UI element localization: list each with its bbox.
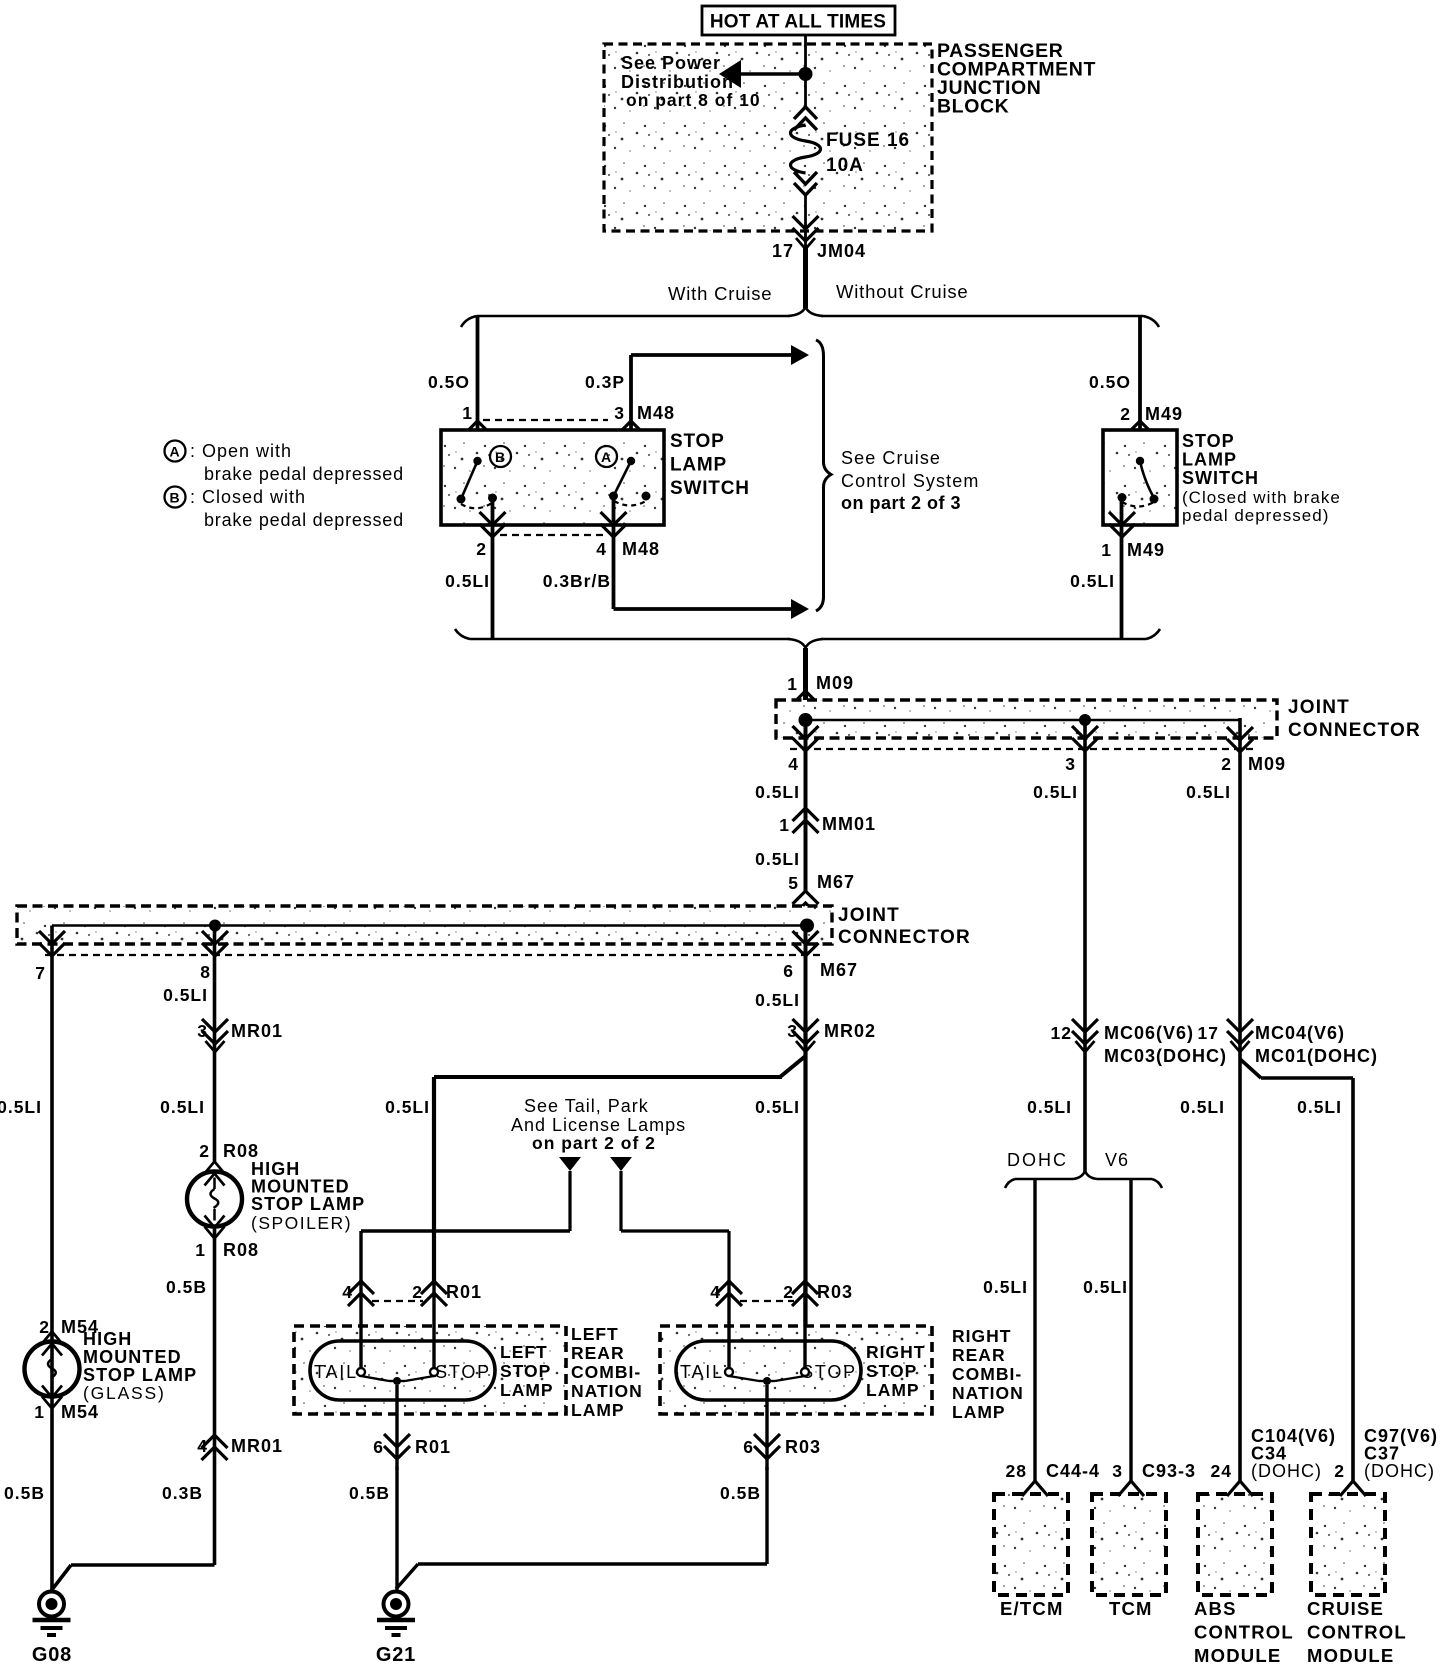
svg-text:NATION: NATION <box>952 1383 1024 1403</box>
svg-text:STOP LAMP: STOP LAMP <box>83 1365 197 1385</box>
svg-text:12: 12 <box>1051 1023 1072 1043</box>
svg-text:LAMP: LAMP <box>952 1402 1006 1422</box>
svg-text:0.5B: 0.5B <box>166 1277 207 1297</box>
svg-text:G08: G08 <box>32 1644 72 1666</box>
svg-text:6: 6 <box>783 961 794 981</box>
svg-text:MR02: MR02 <box>824 1021 876 1041</box>
svg-text:2: 2 <box>476 539 487 559</box>
svg-text:C93-3: C93-3 <box>1142 1461 1196 1481</box>
svg-text:CONTROL: CONTROL <box>1307 1622 1407 1643</box>
svg-text:6: 6 <box>373 1437 384 1457</box>
svg-text:(GLASS): (GLASS) <box>83 1383 166 1403</box>
svg-text:0.5LI: 0.5LI <box>0 1097 42 1117</box>
svg-text:0.5LI: 0.5LI <box>445 571 490 591</box>
svg-text:0.5O: 0.5O <box>1089 372 1131 392</box>
svg-text:0.5B: 0.5B <box>4 1483 45 1503</box>
svg-text:on part 2 of 2: on part 2 of 2 <box>532 1133 656 1153</box>
svg-text:0.5LI: 0.5LI <box>1180 1097 1225 1117</box>
svg-text:0.5LI: 0.5LI <box>1186 782 1231 802</box>
svg-text:2: 2 <box>1221 754 1232 774</box>
svg-text:0.5LI: 0.5LI <box>385 1097 430 1117</box>
svg-text:1: 1 <box>787 674 798 694</box>
svg-text:2: 2 <box>783 1282 794 1302</box>
svg-text:MC04(V6): MC04(V6) <box>1255 1023 1345 1043</box>
svg-text:B: B <box>169 490 180 506</box>
svg-text:LAMP: LAMP <box>500 1380 554 1400</box>
svg-text:MC06(V6): MC06(V6) <box>1104 1023 1194 1043</box>
svg-text:0.5LI: 0.5LI <box>1297 1097 1342 1117</box>
svg-text:MC01(DOHC): MC01(DOHC) <box>1255 1046 1378 1066</box>
svg-text:C44-4: C44-4 <box>1046 1461 1100 1481</box>
svg-text:FUSE 16: FUSE 16 <box>826 130 910 151</box>
svg-text:STOP: STOP <box>1182 431 1235 451</box>
svg-text:0.5LI: 0.5LI <box>755 782 800 802</box>
svg-text:17: 17 <box>1198 1023 1219 1043</box>
svg-text:0.5LI: 0.5LI <box>755 1097 800 1117</box>
svg-text:24: 24 <box>1211 1461 1232 1481</box>
svg-text:BLOCK: BLOCK <box>937 96 1009 118</box>
svg-text:R01: R01 <box>415 1437 451 1457</box>
svg-text:R03: R03 <box>785 1437 821 1457</box>
svg-text:COMBI-: COMBI- <box>571 1362 641 1382</box>
svg-text:CONNECTOR: CONNECTOR <box>838 927 971 948</box>
svg-text:0.5LI: 0.5LI <box>1027 1097 1072 1117</box>
svg-text:1: 1 <box>779 815 790 835</box>
svg-text:M67: M67 <box>817 872 855 892</box>
svg-text:With Cruise: With Cruise <box>668 283 772 304</box>
svg-text:M48: M48 <box>637 403 675 423</box>
svg-text:See Cruise: See Cruise <box>841 448 941 468</box>
svg-text:0.5LI: 0.5LI <box>1070 571 1115 591</box>
svg-text:R01: R01 <box>446 1282 482 1302</box>
svg-text:M54: M54 <box>61 1402 99 1422</box>
svg-text:REAR: REAR <box>571 1343 625 1363</box>
svg-text:4: 4 <box>710 1282 721 1302</box>
svg-text:LAMP: LAMP <box>670 455 727 476</box>
svg-text:TAIL: TAIL <box>680 1362 724 1382</box>
svg-text:LEFT: LEFT <box>571 1324 619 1344</box>
svg-text:R03: R03 <box>817 1282 853 1302</box>
svg-text:28: 28 <box>1006 1461 1027 1481</box>
svg-text:0.5LI: 0.5LI <box>163 985 208 1005</box>
svg-text:0.3Br/B: 0.3Br/B <box>543 571 611 591</box>
svg-text:M49: M49 <box>1127 540 1165 560</box>
svg-text:2: 2 <box>1120 404 1131 424</box>
svg-text:0.5LI: 0.5LI <box>1033 782 1078 802</box>
svg-text:Without Cruise: Without Cruise <box>836 281 969 302</box>
svg-text:G21: G21 <box>376 1644 416 1666</box>
svg-text:B: B <box>495 449 506 465</box>
svg-text:3: 3 <box>1065 754 1076 774</box>
svg-text:M67: M67 <box>820 960 858 980</box>
svg-text:brake pedal depressed: brake pedal depressed <box>204 464 404 484</box>
svg-text:LAMP: LAMP <box>571 1400 625 1420</box>
svg-text:Control System: Control System <box>841 471 979 491</box>
svg-text:on part 8 of 10: on part 8 of 10 <box>626 90 761 110</box>
svg-text:7: 7 <box>35 963 46 983</box>
svg-text:MC03(DOHC): MC03(DOHC) <box>1104 1046 1227 1066</box>
svg-text:M09: M09 <box>816 673 854 693</box>
svg-text:R08: R08 <box>223 1240 259 1260</box>
svg-text:8: 8 <box>200 962 211 982</box>
svg-text:JM04: JM04 <box>817 241 866 261</box>
svg-text:4: 4 <box>596 539 607 559</box>
svg-text:: Open with: : Open with <box>190 441 292 461</box>
svg-text:brake pedal depressed: brake pedal depressed <box>204 510 404 530</box>
svg-text:See Power: See Power <box>621 53 721 73</box>
svg-text:0.5B: 0.5B <box>720 1483 761 1503</box>
svg-text:STOP LAMP: STOP LAMP <box>251 1194 365 1214</box>
svg-text:pedal depressed): pedal depressed) <box>1182 506 1329 525</box>
svg-text:(SPOILER): (SPOILER) <box>251 1213 352 1233</box>
svg-text:4: 4 <box>788 754 799 774</box>
svg-text:1: 1 <box>195 1240 206 1260</box>
svg-text:17: 17 <box>772 241 794 261</box>
svg-text:R08: R08 <box>223 1141 259 1161</box>
svg-text:3: 3 <box>197 1021 208 1041</box>
svg-text:LAMP: LAMP <box>866 1380 920 1400</box>
svg-text:LAMP: LAMP <box>1182 450 1237 470</box>
svg-text:HOT AT ALL TIMES: HOT AT ALL TIMES <box>710 12 886 33</box>
svg-text:CRUISE: CRUISE <box>1307 1598 1384 1619</box>
svg-text:0.5B: 0.5B <box>349 1483 390 1503</box>
svg-text:0.5O: 0.5O <box>428 372 470 392</box>
svg-text:STOP: STOP <box>500 1361 551 1381</box>
svg-text:RIGHT: RIGHT <box>952 1326 1011 1346</box>
svg-text:ABS: ABS <box>1194 1598 1237 1619</box>
svg-text:2: 2 <box>199 1141 210 1161</box>
svg-text:JOINT: JOINT <box>838 905 900 926</box>
svg-text:STOP: STOP <box>435 1362 491 1382</box>
svg-text:(DOHC): (DOHC) <box>1251 1461 1322 1481</box>
svg-text:MR01: MR01 <box>231 1436 283 1456</box>
svg-text:4: 4 <box>342 1282 353 1302</box>
svg-text:MM01: MM01 <box>822 814 876 834</box>
svg-text:MOUNTED: MOUNTED <box>83 1347 182 1367</box>
svg-text:HIGH: HIGH <box>83 1329 132 1349</box>
svg-text:10A: 10A <box>826 155 864 176</box>
svg-text:Distribution: Distribution <box>621 72 734 92</box>
svg-text:1: 1 <box>1101 540 1112 560</box>
svg-text:6: 6 <box>743 1437 754 1457</box>
svg-text:See Tail, Park: See Tail, Park <box>524 1096 649 1116</box>
svg-text:0.5LI: 0.5LI <box>755 990 800 1010</box>
svg-text:REAR: REAR <box>952 1345 1006 1365</box>
svg-text:0.3B: 0.3B <box>162 1483 203 1503</box>
svg-text:0.3P: 0.3P <box>585 372 625 392</box>
svg-text:TAIL: TAIL <box>314 1362 358 1382</box>
svg-text:RIGHT: RIGHT <box>866 1342 925 1362</box>
svg-text:CONTROL: CONTROL <box>1194 1622 1294 1643</box>
svg-text:: Closed with: : Closed with <box>190 487 306 507</box>
svg-text:3: 3 <box>614 403 625 423</box>
svg-text:on part 2 of 3: on part 2 of 3 <box>841 493 961 513</box>
svg-text:STOP: STOP <box>866 1361 917 1381</box>
svg-text:1: 1 <box>34 1402 45 1422</box>
svg-text:MR01: MR01 <box>231 1021 283 1041</box>
svg-text:0.5LI: 0.5LI <box>1083 1277 1128 1297</box>
svg-text:M48: M48 <box>622 539 660 559</box>
svg-text:STOP: STOP <box>670 431 725 452</box>
svg-text:JOINT: JOINT <box>1288 697 1350 718</box>
svg-text:5: 5 <box>788 873 799 893</box>
svg-text:NATION: NATION <box>571 1381 643 1401</box>
svg-text:1: 1 <box>462 403 473 423</box>
svg-text:M49: M49 <box>1145 404 1183 424</box>
svg-text:4: 4 <box>197 1436 208 1456</box>
svg-text:COMBI-: COMBI- <box>952 1364 1022 1384</box>
svg-text:DOHC: DOHC <box>1007 1150 1068 1170</box>
svg-text:2: 2 <box>412 1282 423 1302</box>
svg-text:2: 2 <box>1334 1461 1345 1481</box>
svg-text:CONNECTOR: CONNECTOR <box>1288 720 1421 741</box>
svg-text:A: A <box>169 444 180 460</box>
svg-text:And License Lamps: And License Lamps <box>511 1115 686 1135</box>
svg-text:MODULE: MODULE <box>1194 1645 1281 1666</box>
svg-text:(DOHC): (DOHC) <box>1364 1461 1435 1481</box>
svg-text:(Closed with brake: (Closed with brake <box>1182 488 1341 507</box>
svg-text:0.5LI: 0.5LI <box>755 849 800 869</box>
svg-text:M09: M09 <box>1248 754 1286 774</box>
svg-text:3: 3 <box>787 1021 798 1041</box>
svg-text:3: 3 <box>1112 1461 1123 1481</box>
svg-text:SWITCH: SWITCH <box>670 478 750 499</box>
svg-text:LEFT: LEFT <box>500 1342 548 1362</box>
svg-text:TCM: TCM <box>1109 1598 1153 1619</box>
svg-text:E/TCM: E/TCM <box>1000 1598 1064 1619</box>
svg-text:V6: V6 <box>1105 1150 1129 1170</box>
svg-text:0.5LI: 0.5LI <box>160 1097 205 1117</box>
svg-text:SWITCH: SWITCH <box>1182 468 1259 488</box>
svg-text:MODULE: MODULE <box>1307 1645 1394 1666</box>
svg-text:A: A <box>601 449 612 465</box>
svg-text:0.5LI: 0.5LI <box>983 1277 1028 1297</box>
